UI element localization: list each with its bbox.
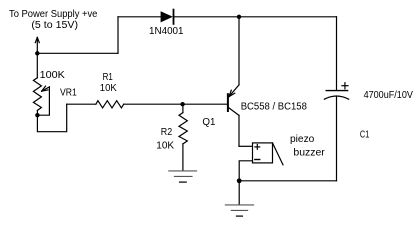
- piezo buzzer: [253, 143, 284, 165]
- svg-text:To Power Supply +ve: To Power Supply +ve: [9, 9, 98, 20]
- svg-text:BC558 / BC158: BC558 / BC158: [241, 102, 308, 113]
- node A: +V junction: [35, 51, 39, 55]
- wire: right rail down to capacitor: [336, 17, 338, 90]
- potentiometer VR1 100K (resistor body): [33, 78, 41, 111]
- svg-text:buzzer: buzzer: [293, 148, 325, 159]
- potentiometer wiper arrow: [37, 86, 49, 115]
- ground symbol (main): [225, 205, 253, 216]
- wire: riser up to top rail: [117, 17, 119, 54]
- wire: node B to top-right corner: [239, 16, 337, 18]
- wire: buzzer - stub down to node C: [239, 161, 252, 181]
- svg-text:10K: 10K: [100, 83, 117, 94]
- svg-text:(5 to 15V): (5 to 15V): [31, 20, 78, 31]
- wire: collector stub to buzzer +: [239, 145, 253, 147]
- wire: node D to transistor base: [183, 103, 227, 105]
- node C: ground junction: [237, 178, 242, 183]
- transistor Q1 BC558/BC158: [228, 17, 239, 147]
- node E: pot bottom junction: [35, 113, 39, 117]
- svg-text:piezo: piezo: [290, 134, 315, 145]
- diode D1 1N4001: [161, 10, 174, 24]
- wire: bottom rail to node C: [239, 180, 336, 182]
- wire: top rail to diode anode: [118, 16, 161, 18]
- label: To Power Supply +ve: [9, 9, 98, 31]
- wire: node C down to ground: [238, 181, 240, 205]
- node D: base junction: [180, 102, 184, 106]
- resistor R2 10K: [179, 104, 187, 170]
- wire: rail corner to R1: [67, 103, 96, 105]
- ground symbol (under R2): [169, 171, 197, 182]
- svg-text:Q1: Q1: [202, 117, 216, 128]
- power supply up-arrow: [35, 37, 39, 53]
- svg-text:R2: R2: [161, 127, 173, 138]
- svg-text:10K: 10K: [156, 141, 174, 152]
- wire: node A down to potentiometer: [36, 53, 38, 77]
- node B: emitter/top junction: [237, 15, 241, 19]
- svg-text:4700uF/10V: 4700uF/10V: [364, 90, 414, 101]
- svg-text:100K: 100K: [40, 70, 66, 81]
- wire: R1 to node D: [124, 103, 183, 105]
- wire: capacitor to bottom-right corner: [336, 96, 338, 181]
- svg-text:1N4001: 1N4001: [149, 26, 184, 37]
- svg-text:VR1: VR1: [60, 88, 77, 99]
- svg-text:R1: R1: [103, 72, 114, 83]
- label piezo buzzer: [290, 134, 325, 159]
- resistor R1 10K: [96, 101, 124, 108]
- wire: node A to riser corner: [37, 52, 118, 54]
- capacitor C1: [324, 83, 348, 100]
- wire: node E down and over to rail: [37, 104, 66, 132]
- wire: pot body to node E: [36, 110, 38, 115]
- wire: diode cathode to node B: [174, 16, 239, 18]
- svg-text:C1: C1: [360, 129, 370, 140]
